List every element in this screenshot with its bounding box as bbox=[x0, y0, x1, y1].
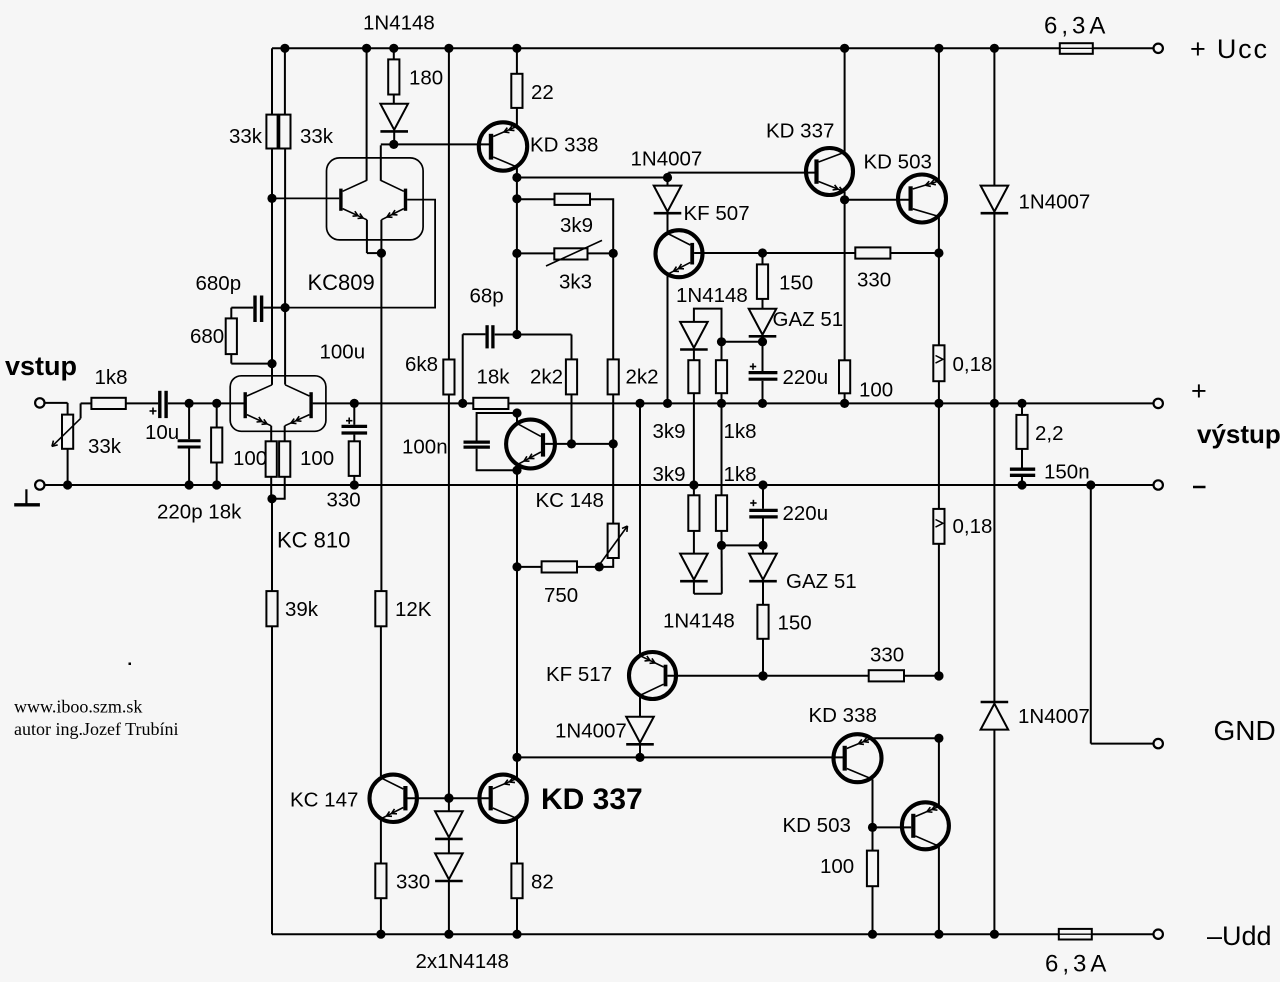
svg-text:+ Ucc: + Ucc bbox=[1190, 34, 1269, 64]
svg-text:330: 330 bbox=[327, 489, 361, 512]
svg-text:150: 150 bbox=[778, 612, 812, 635]
svg-text:1N4148: 1N4148 bbox=[676, 284, 748, 307]
svg-text:KD 337: KD 337 bbox=[766, 120, 834, 143]
svg-text:2k2: 2k2 bbox=[530, 366, 563, 389]
svg-text:+: + bbox=[1191, 376, 1207, 406]
svg-text:33k: 33k bbox=[229, 125, 263, 148]
svg-text:150n: 150n bbox=[1044, 461, 1090, 484]
svg-text:KC809: KC809 bbox=[308, 270, 375, 295]
svg-text:330: 330 bbox=[870, 644, 904, 667]
svg-text:6k8: 6k8 bbox=[405, 353, 438, 376]
svg-text:2,2: 2,2 bbox=[1035, 422, 1064, 445]
svg-text:39k: 39k bbox=[285, 598, 319, 621]
svg-text:100: 100 bbox=[233, 447, 267, 470]
svg-text:www.iboo.szm.sk: www.iboo.szm.sk bbox=[14, 697, 142, 717]
svg-text:0,18: 0,18 bbox=[953, 353, 993, 376]
svg-text:33k: 33k bbox=[88, 435, 122, 458]
svg-text:3k9: 3k9 bbox=[653, 463, 686, 486]
svg-text:KD 503: KD 503 bbox=[783, 814, 851, 837]
svg-text:68p: 68p bbox=[470, 285, 504, 308]
svg-text:220u: 220u bbox=[783, 502, 829, 525]
svg-text:KD 337: KD 337 bbox=[541, 783, 643, 816]
svg-text:150: 150 bbox=[779, 272, 813, 295]
svg-text:GND: GND bbox=[1214, 715, 1276, 746]
svg-text:2k2: 2k2 bbox=[626, 366, 659, 389]
svg-text:1k8: 1k8 bbox=[95, 366, 128, 389]
svg-text:220p 18k: 220p 18k bbox=[157, 501, 242, 524]
svg-text:KF 517: KF 517 bbox=[546, 663, 612, 686]
svg-text:10u: 10u bbox=[145, 421, 179, 444]
svg-text:680p: 680p bbox=[196, 272, 242, 295]
svg-text:KD 338: KD 338 bbox=[530, 134, 598, 157]
svg-text:1N4007: 1N4007 bbox=[1018, 705, 1090, 728]
svg-text:12K: 12K bbox=[395, 598, 432, 621]
svg-text:KD 338: KD 338 bbox=[809, 704, 877, 727]
svg-text:–Udd: –Udd bbox=[1207, 921, 1272, 951]
svg-text:220u: 220u bbox=[783, 366, 829, 389]
svg-text:330: 330 bbox=[857, 269, 891, 292]
svg-text:3k9: 3k9 bbox=[653, 420, 686, 443]
svg-text:100u: 100u bbox=[320, 341, 366, 364]
svg-text:33k: 33k bbox=[300, 125, 334, 148]
svg-text:KD 503: KD 503 bbox=[864, 151, 932, 174]
svg-text:680: 680 bbox=[190, 325, 224, 348]
svg-text:100: 100 bbox=[300, 447, 334, 470]
svg-text:KC 810: KC 810 bbox=[277, 528, 350, 553]
svg-text:vstup: vstup bbox=[5, 351, 77, 381]
svg-text:výstup: výstup bbox=[1197, 419, 1280, 449]
svg-text:0,18: 0,18 bbox=[953, 515, 993, 538]
svg-text:6,3A: 6,3A bbox=[1045, 951, 1110, 978]
svg-text:1N4148: 1N4148 bbox=[663, 610, 735, 633]
svg-text:180: 180 bbox=[409, 67, 443, 90]
svg-text:autor ing.Jozef Trubíni: autor ing.Jozef Trubíni bbox=[14, 719, 179, 739]
svg-text:1N4007: 1N4007 bbox=[1019, 191, 1091, 214]
svg-text:100: 100 bbox=[859, 379, 893, 402]
svg-text:1k8: 1k8 bbox=[724, 463, 757, 486]
svg-text:3k3: 3k3 bbox=[559, 271, 592, 294]
svg-text:100: 100 bbox=[820, 855, 854, 878]
svg-text:750: 750 bbox=[544, 584, 578, 607]
svg-text:1k8: 1k8 bbox=[724, 420, 757, 443]
svg-text:GAZ 51: GAZ 51 bbox=[773, 308, 844, 331]
svg-text:3k9: 3k9 bbox=[560, 214, 593, 237]
svg-text:1N4007: 1N4007 bbox=[631, 148, 703, 171]
svg-text:6,3A: 6,3A bbox=[1044, 13, 1109, 40]
svg-text:18k: 18k bbox=[477, 366, 511, 389]
svg-text:2x1N4148: 2x1N4148 bbox=[416, 950, 509, 973]
svg-text:330: 330 bbox=[396, 871, 430, 894]
svg-text:GAZ 51: GAZ 51 bbox=[786, 570, 857, 593]
svg-text:1N4007: 1N4007 bbox=[555, 720, 627, 743]
svg-text:82: 82 bbox=[531, 871, 554, 894]
svg-text:KF 507: KF 507 bbox=[684, 202, 750, 225]
svg-text:KC 147: KC 147 bbox=[290, 789, 358, 812]
svg-text:1N4148: 1N4148 bbox=[363, 11, 435, 34]
svg-text:KC 148: KC 148 bbox=[536, 489, 604, 512]
svg-text:22: 22 bbox=[531, 81, 554, 104]
svg-text:100n: 100n bbox=[402, 436, 448, 459]
